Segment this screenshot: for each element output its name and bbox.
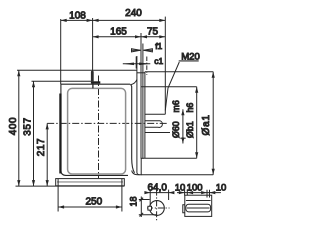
flange top edge <box>137 72 145 74</box>
wire top extension for 400 <box>17 69 137 71</box>
key inner top line <box>186 200 211 202</box>
dim 10 right of key <box>201 191 215 194</box>
dim 357 <box>32 81 35 186</box>
shaft end circle <box>150 201 165 216</box>
dim 64,0 <box>144 190 174 206</box>
node centerline horizontal of circle <box>147 207 170 209</box>
flange back face <box>136 56 138 173</box>
svg-text:357: 357 <box>22 117 33 136</box>
svg-text:10: 10 <box>216 182 227 193</box>
dim 75 <box>141 35 165 38</box>
base plate outer <box>56 179 125 186</box>
svg-text:Øa1: Øa1 <box>201 114 212 135</box>
node centerline horizontal main axis <box>47 122 168 124</box>
shaft bore top line <box>145 113 165 115</box>
body neck curve bottom to flange <box>132 171 138 175</box>
node centerline vertical of body <box>98 76 100 179</box>
dim f1 <box>131 49 153 52</box>
node centerline of flange hole c1 <box>146 57 148 76</box>
node centerline vertical of circle <box>156 190 158 221</box>
svg-text:10: 10 <box>175 182 186 193</box>
dim diameter a1 <box>212 72 215 175</box>
dim diameter b1 h6 <box>195 87 198 159</box>
dim c1 <box>123 57 151 69</box>
body top pin foot <box>91 81 100 83</box>
svg-text:h6: h6 <box>185 103 195 113</box>
dim 165 <box>93 35 141 38</box>
svg-text:75: 75 <box>147 26 159 37</box>
wire extension line between 108 and 240 <box>92 18 94 71</box>
body top vent pin <box>91 71 94 82</box>
keyway box on circle <box>148 206 152 210</box>
svg-text:250: 250 <box>85 196 102 207</box>
key left end box <box>183 205 185 213</box>
svg-text:240: 240 <box>125 8 142 19</box>
body gearbox housing outer <box>61 84 130 175</box>
svg-text:c1: c1 <box>154 56 163 66</box>
wire pin hidden stem <box>92 84 94 89</box>
wire flange front face second line <box>142 44 144 159</box>
dim 18 keyway <box>139 197 157 218</box>
dim 217 <box>46 123 49 186</box>
key side view outer <box>185 195 212 216</box>
wire top extension for 357 <box>32 80 91 82</box>
motor b1 top edge <box>141 86 197 88</box>
svg-text:Øb1: Øb1 <box>185 121 195 138</box>
svg-text:165: 165 <box>110 26 127 37</box>
motor body outline right view <box>137 72 213 175</box>
svg-text:217: 217 <box>36 138 47 157</box>
base plate inner gray line <box>57 181 123 183</box>
dim 240 <box>93 19 166 22</box>
wire flange back face bottom curve <box>137 173 140 175</box>
key slot inner line <box>187 207 210 209</box>
dim 10 left of key <box>177 190 221 198</box>
svg-text:Ø60: Ø60 <box>171 121 181 138</box>
dim 400 <box>17 70 20 186</box>
wire flange lower edge vertical <box>140 158 142 175</box>
motor b1 bottom edge <box>141 157 197 159</box>
dim diameter 60 m6 <box>180 109 185 143</box>
svg-text:M20: M20 <box>181 51 200 62</box>
svg-text:100: 100 <box>187 182 203 193</box>
svg-text:64,0: 64,0 <box>147 182 167 193</box>
wire extension line left of dim 108 <box>60 19 62 84</box>
svg-text:f1: f1 <box>155 41 162 51</box>
svg-text:m6: m6 <box>171 100 181 112</box>
wire bottom baseline extension <box>16 185 125 187</box>
body neck curve top to flange <box>131 80 137 85</box>
svg-text:18: 18 <box>129 196 139 206</box>
svg-text:400: 400 <box>8 117 19 136</box>
wire extension line between 165 and 75 <box>140 33 142 159</box>
dim 250 <box>58 179 122 212</box>
svg-text:108: 108 <box>69 10 86 21</box>
key inner slot <box>186 204 211 212</box>
shaft tapped slot <box>145 121 163 128</box>
body inner liner gray <box>68 88 126 174</box>
shaft bore bottom line <box>145 132 170 134</box>
label M20 with leader <box>165 61 198 111</box>
body left dark band <box>59 94 61 174</box>
wire extension line right of 240/75 down to bore <box>164 17 166 115</box>
dim 108 <box>61 19 93 22</box>
